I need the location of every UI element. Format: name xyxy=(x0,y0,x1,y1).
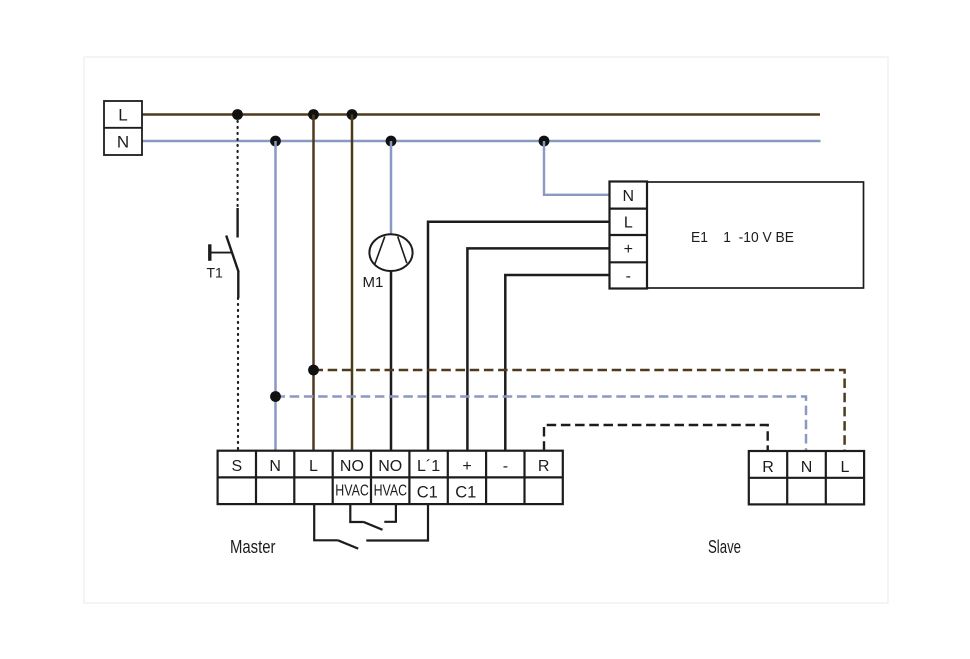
node L-master junction xyxy=(308,109,319,120)
svg-text:N: N xyxy=(801,459,813,476)
wire L bus (brown) xyxy=(142,113,820,116)
wire S solid stub lower xyxy=(237,272,239,299)
svg-text:E1 1 -10 V BE: E1 1 -10 V BE xyxy=(691,229,794,246)
wire L down to master L xyxy=(312,115,315,451)
svg-text:C1: C1 xyxy=(455,484,476,502)
svg-text:N: N xyxy=(623,188,635,205)
wire L down to master NO xyxy=(351,115,354,451)
wire brown dashed L to slave L xyxy=(314,370,845,451)
wire E1 + to master + xyxy=(467,248,609,450)
svg-text:+: + xyxy=(624,241,633,258)
svg-text:HVAC: HVAC xyxy=(374,483,408,500)
svg-text:T1: T1 xyxy=(207,265,224,281)
svg-text:N: N xyxy=(117,133,129,152)
svg-text:L: L xyxy=(624,214,633,231)
svg-text:NO: NO xyxy=(378,458,402,475)
svg-text:L: L xyxy=(309,458,318,475)
wire S solid stub upper xyxy=(236,208,238,238)
wire E1 L to master L´1 xyxy=(428,222,610,450)
page frame xyxy=(84,57,888,603)
ballast E1 box xyxy=(647,182,864,288)
node N-M1 junction xyxy=(386,136,397,147)
wire N bus (blue) xyxy=(142,140,821,143)
svg-text:+: + xyxy=(462,458,471,475)
ballast E1 terminal column xyxy=(610,182,648,289)
wire E1 - to master - xyxy=(505,275,609,450)
wire S dotted lower xyxy=(237,298,239,450)
wire blue dashed N to slave N xyxy=(276,397,807,452)
svg-text:L´1: L´1 xyxy=(417,458,440,475)
switch linkage L-L´1 xyxy=(314,504,428,549)
svg-text:Slave: Slave xyxy=(708,537,741,557)
wire M1 down to master NO xyxy=(390,271,393,450)
node brown dash start xyxy=(308,365,319,376)
wire S dotted upper xyxy=(237,121,239,208)
svg-text:M1: M1 xyxy=(363,274,384,291)
svg-text:N: N xyxy=(269,458,281,475)
terminal block Slave xyxy=(749,451,864,504)
svg-text:C1: C1 xyxy=(417,484,438,502)
node N-master junction xyxy=(270,136,281,147)
wire N bus to E1 N xyxy=(544,141,610,195)
terminal block L/N supply xyxy=(104,101,142,155)
switch T1 xyxy=(210,236,239,273)
node L-S junction xyxy=(232,109,243,120)
switch linkage NO-NO xyxy=(350,504,396,530)
wire black dashed R to slave R xyxy=(544,425,768,451)
node N-E1 junction xyxy=(539,136,550,147)
node L-NO junction xyxy=(347,109,358,120)
svg-text:-: - xyxy=(626,268,631,285)
svg-text:L: L xyxy=(841,459,850,476)
svg-text:R: R xyxy=(538,458,550,475)
wire N down to master N xyxy=(274,141,277,450)
node blue dash start xyxy=(270,391,281,402)
svg-text:Master: Master xyxy=(230,537,276,557)
svg-text:S: S xyxy=(231,458,242,475)
svg-text:HVAC: HVAC xyxy=(335,483,369,500)
svg-text:-: - xyxy=(503,458,508,475)
terminal block Master xyxy=(218,451,563,504)
svg-text:R: R xyxy=(762,459,774,476)
wire N down to M1 xyxy=(390,141,393,235)
svg-text:NO: NO xyxy=(340,458,364,475)
motor M1 xyxy=(369,234,412,271)
svg-text:L: L xyxy=(118,106,127,125)
